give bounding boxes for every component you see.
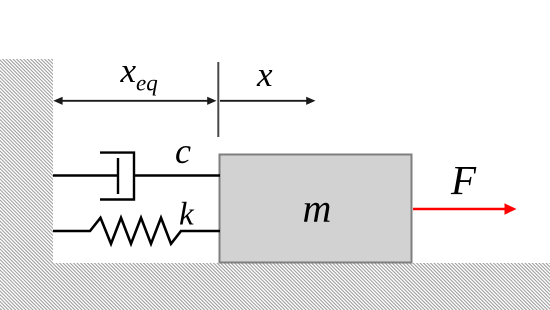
reference line (equilibrium tick) <box>217 62 219 137</box>
damper right rod to mass <box>134 174 220 176</box>
mass m block <box>220 155 412 263</box>
x axis arrowhead <box>306 97 315 105</box>
svg-text:m: m <box>303 186 332 231</box>
damper cylinder (open cup) <box>100 153 134 200</box>
svg-text:x: x <box>256 55 273 94</box>
x_eq left arrowhead <box>53 97 62 105</box>
svg-text:c: c <box>175 131 191 171</box>
x_eq right arrowhead <box>207 97 216 105</box>
x_eq dimension line <box>56 100 213 102</box>
svg-text:k: k <box>179 197 195 233</box>
force arrowhead <box>505 203 517 214</box>
svg-text:xeq: xeq <box>120 51 158 96</box>
damper c : left rod from wall <box>53 174 118 176</box>
svg-text:F: F <box>450 157 477 203</box>
force arrow F (red) <box>413 208 505 211</box>
x axis arrow <box>220 100 308 102</box>
spring k <box>53 218 220 244</box>
damper piston plate <box>117 158 119 194</box>
